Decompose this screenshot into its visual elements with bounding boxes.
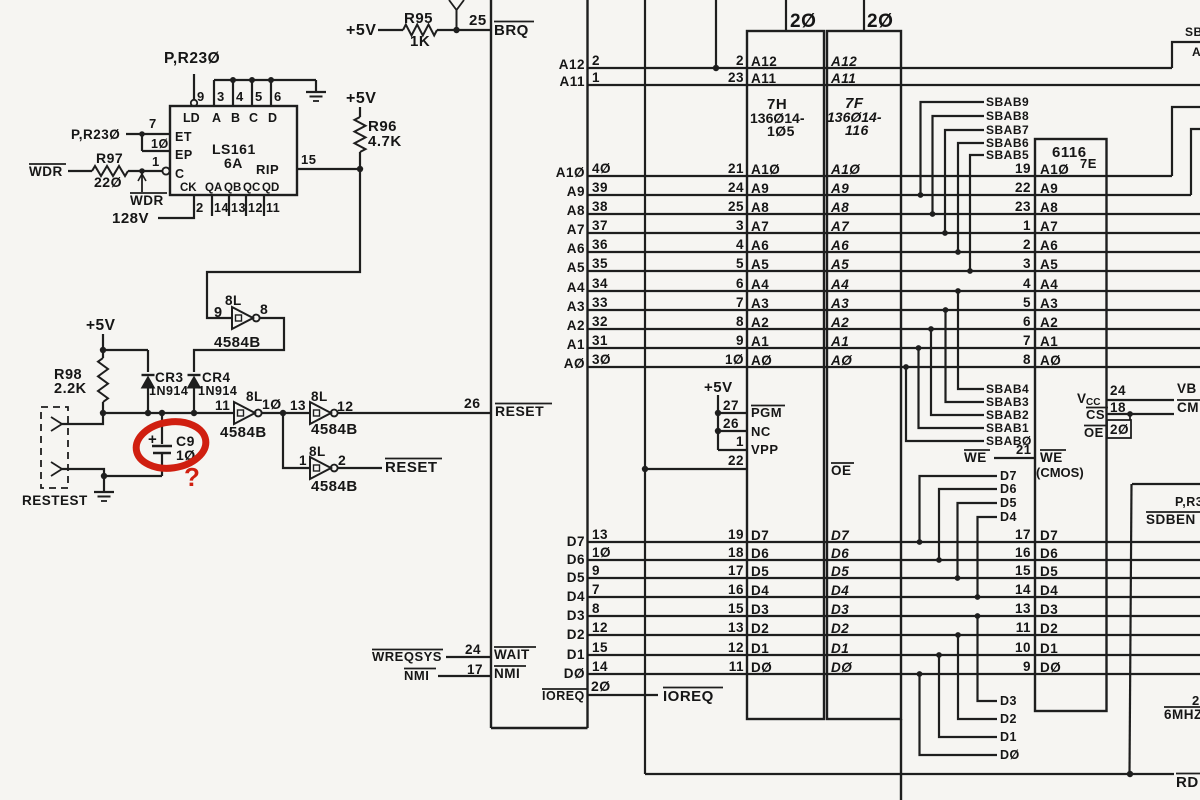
svg-text:A8: A8	[751, 200, 769, 215]
svg-text:WDR: WDR	[29, 164, 63, 179]
node junction reset branch	[280, 410, 286, 416]
svg-text:D4: D4	[831, 583, 849, 598]
net DØ tap	[920, 674, 998, 755]
wire WDR to R97	[68, 170, 92, 172]
svg-text:D2: D2	[831, 621, 849, 636]
net D4 tap	[978, 517, 998, 597]
wire NMI	[438, 675, 491, 677]
inverter U8L-d 4584B	[310, 457, 331, 479]
net SBAB1	[919, 348, 985, 428]
wire P,R230 to LD	[193, 74, 195, 100]
wire CS out	[1107, 413, 1175, 415]
net SBAB5	[970, 155, 984, 271]
svg-text:A6: A6	[830, 238, 849, 253]
wire P,R230 to ET	[126, 133, 170, 135]
svg-text:22: 22	[1015, 180, 1031, 195]
svg-text:7: 7	[149, 116, 157, 131]
svg-text:RESTEST: RESTEST	[22, 493, 88, 508]
svg-text:34: 34	[592, 276, 608, 291]
svg-text:8L: 8L	[246, 389, 263, 404]
wire restest upper contact	[62, 413, 103, 424]
svg-text:A5: A5	[751, 257, 769, 272]
net SBAB3	[946, 310, 985, 402]
svg-text:37: 37	[592, 218, 608, 233]
svg-text:D7: D7	[1000, 469, 1017, 483]
net WDR tap below	[141, 173, 143, 192]
svg-text:OE: OE	[1084, 425, 1104, 440]
node junction C	[249, 77, 255, 83]
svg-text:9: 9	[1023, 659, 1031, 674]
node junction CR3 branch	[100, 347, 106, 353]
svg-text:SBAB4: SBAB4	[986, 382, 1029, 396]
wire clock 2phi 7F	[863, 0, 865, 31]
node junction D	[268, 77, 274, 83]
net IOREQ label	[663, 687, 723, 689]
svg-text:8L: 8L	[225, 293, 242, 308]
node junction A12	[713, 65, 719, 71]
wire bus line 7F right edge down	[900, 719, 902, 800]
svg-text:7: 7	[592, 582, 600, 597]
ground restest	[103, 476, 105, 492]
svg-text:1Ø: 1Ø	[725, 352, 744, 367]
svg-text:DØ: DØ	[831, 660, 852, 675]
svg-text:2: 2	[196, 200, 204, 215]
net RD	[1176, 773, 1200, 775]
wire +5V to PGM NC VPP	[717, 395, 719, 450]
svg-text:26: 26	[464, 395, 481, 411]
svg-text:D4: D4	[1000, 510, 1017, 524]
node junction NC	[715, 428, 721, 434]
svg-text:D2: D2	[751, 621, 769, 636]
svg-text:11: 11	[1016, 620, 1031, 635]
svg-text:2: 2	[1023, 237, 1031, 252]
cpu Z80 right edge	[586, 0, 588, 728]
svg-text:A1Ø: A1Ø	[830, 162, 860, 177]
wire reset rail	[103, 412, 234, 414]
wire bus A1	[588, 347, 1200, 349]
svg-text:R95: R95	[404, 10, 433, 27]
svg-text:8L: 8L	[309, 444, 326, 459]
svg-text:17: 17	[728, 563, 744, 578]
svg-text:IOREQ: IOREQ	[542, 689, 585, 703]
wire bus D3	[588, 615, 1200, 617]
svg-text:A4: A4	[1040, 277, 1058, 292]
svg-text:+5V: +5V	[346, 90, 376, 107]
svg-text:CK: CK	[180, 182, 197, 194]
svg-text:D1: D1	[1000, 730, 1017, 744]
svg-text:5: 5	[255, 89, 263, 104]
svg-text:OE: OE	[831, 463, 852, 478]
diode CR3 1N914	[142, 374, 155, 376]
node junction BRQ	[453, 27, 459, 33]
svg-text:DØ: DØ	[1040, 660, 1061, 675]
cpu Z80 bottom edge	[491, 727, 588, 729]
wire A10 exit corner	[1172, 107, 1200, 176]
resistor R95	[403, 25, 437, 36]
svg-text:SB: SB	[1185, 25, 1200, 39]
svg-text:(CMOS): (CMOS)	[1036, 465, 1084, 480]
svg-text:6: 6	[274, 89, 282, 104]
svg-text:19: 19	[728, 527, 744, 542]
svg-text:D6: D6	[1040, 546, 1058, 561]
svg-text:D7: D7	[831, 528, 850, 543]
svg-text:24: 24	[1110, 383, 1126, 398]
net WE source	[964, 449, 990, 451]
node junction RIP	[357, 166, 363, 172]
svg-text:21: 21	[728, 161, 744, 176]
wire bus D5	[588, 577, 1200, 579]
wire +5V down	[102, 334, 104, 358]
svg-text:26: 26	[723, 416, 739, 431]
svg-text:39: 39	[592, 180, 608, 195]
wire bus A5	[588, 270, 1200, 272]
svg-text:2Ø: 2Ø	[790, 11, 816, 32]
net SBAB9	[921, 102, 985, 195]
svg-text:CS: CS	[1086, 407, 1105, 422]
svg-text:4: 4	[736, 237, 744, 252]
eprom label PGM	[751, 405, 785, 407]
svg-text:PGM: PGM	[751, 405, 782, 420]
svg-text:A3: A3	[751, 296, 769, 311]
svg-text:D1: D1	[1040, 641, 1058, 656]
wire from top edge to BRQ node	[456, 9, 458, 30]
svg-text:SBAB1: SBAB1	[986, 421, 1029, 435]
svg-text:A6: A6	[1040, 238, 1058, 253]
node junction PGM	[715, 410, 721, 416]
svg-text:R97: R97	[96, 150, 123, 166]
svg-text:A1Ø: A1Ø	[1040, 162, 1069, 177]
wire inv2 to inv3	[262, 412, 310, 414]
clock bubble	[162, 167, 169, 174]
svg-text:D6: D6	[1000, 482, 1017, 496]
svg-text:2: 2	[592, 53, 600, 68]
svg-text:A4: A4	[830, 277, 849, 292]
counter U 6A LS161	[191, 100, 197, 106]
svg-text:D4: D4	[751, 583, 769, 598]
svg-text:3Ø: 3Ø	[592, 352, 611, 367]
svg-text:A9: A9	[1040, 181, 1058, 196]
wire WREQSYS to WAIT	[446, 656, 491, 658]
svg-text:31: 31	[592, 333, 608, 348]
svg-text:A3: A3	[567, 299, 585, 314]
svg-text:DØ: DØ	[1000, 748, 1020, 762]
node junction CS-OE	[1127, 411, 1133, 417]
svg-text:D1: D1	[567, 647, 585, 662]
svg-text:A9: A9	[751, 181, 769, 196]
wire C9 bottom to ground rail	[104, 475, 162, 477]
svg-text:CR3: CR3	[155, 370, 184, 385]
svg-text:7: 7	[736, 295, 744, 310]
svg-text:A7: A7	[830, 219, 850, 234]
svg-text:11: 11	[266, 201, 280, 215]
svg-text:A11: A11	[830, 71, 856, 86]
svg-text:12: 12	[248, 201, 263, 215]
wire bus A9	[588, 194, 1192, 196]
svg-text:D4: D4	[567, 589, 585, 604]
svg-text:2: 2	[1192, 693, 1200, 708]
wire R96 to RIP node	[359, 152, 361, 169]
svg-text:D5: D5	[751, 564, 769, 579]
svg-text:15: 15	[592, 640, 608, 655]
svg-text:2Ø: 2Ø	[1110, 422, 1129, 437]
svg-text:A11: A11	[751, 71, 777, 86]
svg-text:13: 13	[290, 398, 306, 413]
svg-text:22: 22	[728, 453, 744, 468]
svg-text:D5: D5	[831, 564, 849, 579]
svg-text:6: 6	[1023, 314, 1031, 329]
svg-text:8: 8	[736, 314, 744, 329]
svg-text:D3: D3	[567, 608, 585, 623]
svg-text:1: 1	[152, 154, 160, 169]
svg-text:CM: CM	[1177, 400, 1199, 415]
svg-text:2Ø: 2Ø	[867, 11, 893, 32]
wire bus D7	[588, 541, 1200, 543]
eprom U7F 136014-116 box	[827, 31, 901, 719]
svg-text:D2: D2	[567, 627, 585, 642]
wire Vcc out	[1107, 399, 1175, 401]
wire A9 exit corner	[1191, 129, 1200, 195]
svg-text:D5: D5	[1040, 564, 1058, 579]
svg-text:NC: NC	[751, 424, 771, 439]
svg-text:AØ: AØ	[564, 356, 585, 371]
eprom U7H 136014-105	[747, 31, 824, 719]
wire ABCD tie to ground	[214, 79, 316, 81]
svg-text:9: 9	[736, 333, 744, 348]
net WDR source	[29, 163, 66, 165]
svg-text:D2: D2	[1040, 621, 1058, 636]
svg-text:WAIT: WAIT	[494, 647, 530, 662]
svg-text:A4: A4	[751, 277, 769, 292]
svg-text:RIP: RIP	[256, 162, 279, 177]
svg-text:EP: EP	[175, 148, 193, 162]
wire bus D2	[588, 634, 1200, 636]
svg-text:A9: A9	[567, 184, 585, 199]
node junction ground	[101, 473, 107, 479]
svg-text:+5V: +5V	[346, 22, 376, 39]
svg-text:1K: 1K	[410, 33, 430, 50]
svg-text:P,R23Ø: P,R23Ø	[71, 127, 120, 142]
node junction ET	[139, 131, 145, 137]
svg-text:A7: A7	[567, 222, 585, 237]
ram U7E 6116	[1035, 139, 1107, 711]
svg-text:15: 15	[728, 601, 744, 616]
svg-text:23: 23	[1015, 199, 1031, 214]
net WREQSYS source	[372, 649, 443, 651]
net NMI source	[404, 668, 436, 670]
svg-text:+5V: +5V	[704, 379, 733, 396]
svg-text:D6: D6	[751, 546, 769, 561]
wire CK to 128V	[158, 195, 194, 218]
svg-text:32: 32	[592, 314, 608, 329]
annotation red circle around C9	[133, 417, 209, 472]
node junction RD	[1127, 771, 1133, 777]
svg-text:D7: D7	[1040, 528, 1058, 543]
svg-text:4584B: 4584B	[311, 478, 358, 495]
svg-text:9: 9	[592, 563, 600, 578]
svg-text:A5: A5	[830, 257, 849, 272]
cpu Z80 left edge	[490, 0, 492, 728]
svg-text:4: 4	[236, 89, 244, 104]
svg-text:AØ: AØ	[751, 353, 772, 368]
svg-text:CR4: CR4	[202, 370, 231, 385]
svg-text:36: 36	[592, 237, 608, 252]
wire bus A11	[588, 84, 1200, 86]
svg-text:?: ?	[184, 462, 200, 492]
svg-text:1Ø: 1Ø	[592, 545, 611, 560]
svg-text:A6: A6	[751, 238, 769, 253]
net SBAB8	[933, 116, 985, 214]
svg-text:35: 35	[592, 256, 608, 271]
node junction C9	[159, 410, 165, 416]
node junction CR3	[145, 410, 151, 416]
svg-text:AØ: AØ	[830, 353, 852, 368]
wire RESET out	[338, 467, 382, 469]
svg-text:D5: D5	[567, 570, 585, 585]
svg-text:A2: A2	[567, 318, 585, 333]
svg-text:12: 12	[728, 640, 744, 655]
svg-text:1Ø5: 1Ø5	[767, 123, 795, 139]
svg-text:A3: A3	[830, 296, 849, 311]
svg-text:13: 13	[1015, 601, 1031, 616]
node junction CR4	[191, 410, 197, 416]
svg-text:D3: D3	[1000, 694, 1017, 708]
connector RESTEST	[41, 407, 68, 488]
svg-text:10: 10	[1015, 640, 1031, 655]
wire bus D6	[588, 559, 1200, 561]
svg-text:33: 33	[592, 295, 608, 310]
wire +5V to R95	[378, 29, 403, 31]
svg-text:14: 14	[1015, 582, 1031, 597]
svg-text:8: 8	[1023, 352, 1031, 367]
svg-text:WE: WE	[1040, 450, 1063, 465]
node junction OE	[642, 466, 648, 472]
wire to CR3	[103, 349, 148, 351]
eprom label OE	[831, 462, 854, 464]
svg-text:P,R3: P,R3	[1175, 495, 1200, 509]
svg-text:AØ: AØ	[1040, 353, 1061, 368]
svg-text:A1: A1	[830, 334, 849, 349]
net 6MHZ	[1164, 706, 1200, 708]
svg-text:A8: A8	[1040, 200, 1058, 215]
wire bus A6	[588, 251, 1200, 253]
wire bus D1	[588, 654, 1200, 656]
svg-text:WREQSYS: WREQSYS	[372, 649, 442, 664]
svg-text:7: 7	[1023, 333, 1031, 348]
svg-text:DØ: DØ	[564, 666, 585, 681]
svg-text:1: 1	[299, 453, 307, 468]
svg-text:1: 1	[736, 434, 744, 449]
wire +5V to R96	[359, 107, 361, 117]
ram label OE	[1084, 425, 1106, 427]
svg-text:9: 9	[197, 89, 205, 104]
wire bus A2	[588, 328, 1200, 330]
inverter U8L-c 4584B	[310, 402, 331, 424]
component SDBEN box	[1132, 483, 1200, 485]
svg-text:8L: 8L	[311, 389, 328, 404]
svg-text:AB: AB	[1192, 45, 1200, 59]
svg-text:1: 1	[1023, 218, 1031, 233]
svg-text:14: 14	[214, 201, 229, 215]
svg-text:25: 25	[469, 12, 487, 29]
net CM	[1177, 399, 1200, 401]
svg-text:P,R23Ø: P,R23Ø	[164, 50, 220, 67]
svg-text:A7: A7	[751, 219, 769, 234]
svg-text:A8: A8	[830, 200, 849, 215]
wire bus A1Ø	[588, 175, 1173, 177]
svg-text:QC: QC	[243, 182, 260, 194]
capacitor C9 10uF	[161, 413, 163, 444]
svg-text:SBAB2: SBAB2	[986, 408, 1029, 422]
wire clock 2phi 7H	[785, 0, 787, 31]
svg-text:18: 18	[1110, 400, 1126, 415]
svg-text:128V: 128V	[112, 210, 149, 227]
wire OE bus vertical	[644, 0, 646, 774]
svg-text:RD: RD	[1176, 774, 1199, 791]
svg-text:SBAB3: SBAB3	[986, 395, 1029, 409]
svg-text:8: 8	[260, 301, 268, 317]
svg-text:A8: A8	[567, 203, 585, 218]
wire OE to eprom pin 22	[645, 468, 747, 470]
svg-text:WDR: WDR	[130, 193, 164, 208]
wire bus A3	[588, 309, 1200, 311]
svg-text:ET: ET	[175, 130, 192, 144]
svg-text:A1Ø: A1Ø	[556, 165, 585, 180]
svg-text:4.7K: 4.7K	[368, 133, 402, 150]
wire restest lower contact	[62, 469, 104, 476]
svg-text:4: 4	[1023, 276, 1031, 291]
svg-text:A1: A1	[1040, 334, 1058, 349]
wire QD stub	[263, 195, 265, 216]
svg-text:C: C	[249, 111, 259, 125]
net D2 tap	[958, 635, 997, 719]
svg-text:6MHZ: 6MHZ	[1164, 707, 1200, 722]
svg-text:4584B: 4584B	[311, 421, 358, 438]
svg-text:A12: A12	[830, 54, 857, 69]
svg-text:17: 17	[1015, 527, 1031, 542]
svg-text:13: 13	[592, 527, 608, 542]
svg-text:A2: A2	[1040, 315, 1058, 330]
svg-text:9: 9	[214, 305, 223, 321]
resistor R96	[355, 117, 366, 152]
svg-text:A2: A2	[751, 315, 769, 330]
svg-text:2: 2	[736, 53, 744, 68]
svg-text:3: 3	[217, 89, 225, 104]
svg-text:A6: A6	[567, 241, 585, 256]
svg-text:SBAB8: SBAB8	[986, 109, 1029, 123]
svg-text:A12: A12	[751, 54, 777, 69]
ram label CS	[1086, 407, 1108, 409]
svg-text:A12: A12	[559, 57, 585, 72]
svg-text:4Ø: 4Ø	[592, 161, 611, 176]
svg-text:2Ø: 2Ø	[591, 678, 611, 694]
wire QA stub	[211, 195, 213, 216]
net SBAB6	[958, 143, 984, 252]
net SBAB4	[958, 291, 984, 389]
svg-text:D5: D5	[1000, 496, 1017, 510]
svg-text:24: 24	[465, 642, 481, 657]
wire bus A4	[588, 290, 1200, 292]
svg-text:15: 15	[1015, 563, 1031, 578]
svg-text:QD: QD	[262, 182, 279, 194]
svg-text:QB: QB	[224, 182, 241, 194]
wire RD line	[645, 773, 1174, 775]
wire R95 to CPU pin 25	[437, 29, 491, 31]
diode CR4 1N914	[188, 374, 201, 376]
svg-text:4584B: 4584B	[220, 424, 267, 441]
svg-text:38: 38	[592, 199, 608, 214]
wire inv1 output to CR4	[194, 318, 284, 372]
wire QB stub	[228, 195, 230, 216]
